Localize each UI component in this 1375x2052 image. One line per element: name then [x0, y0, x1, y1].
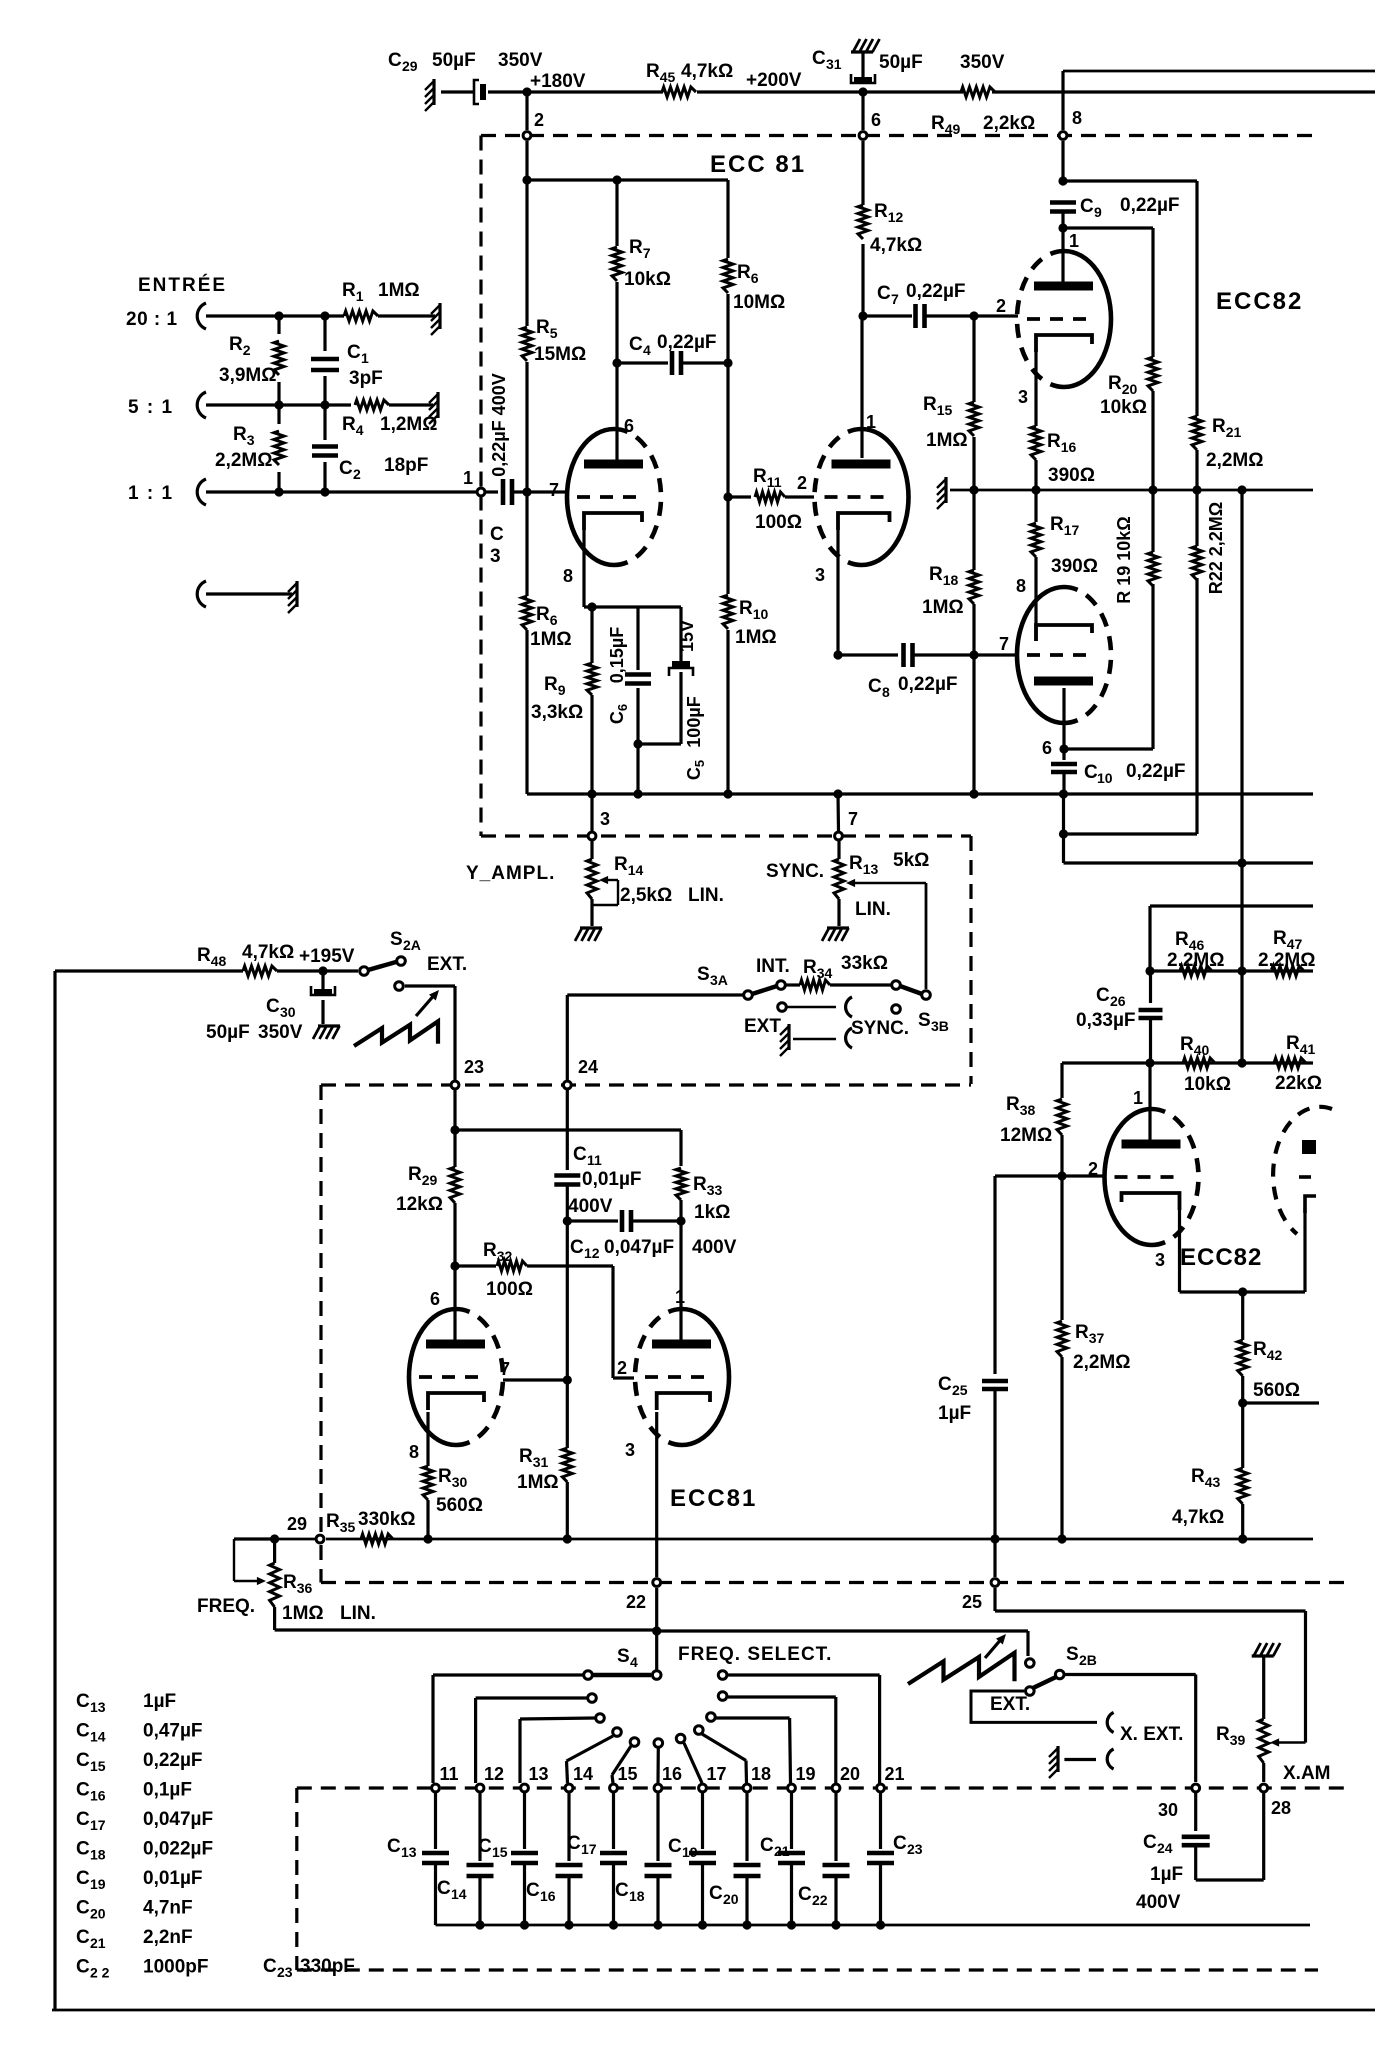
svg-text:C: C — [490, 524, 504, 545]
sawtooth icon 2 — [908, 1653, 1015, 1684]
svg-text:50µF: 50µF — [206, 1022, 250, 1043]
svg-text:1: 1 — [1069, 231, 1079, 251]
svg-text:1µF: 1µF — [143, 1691, 176, 1712]
resistor R21 — [1192, 416, 1202, 450]
wire output X right — [1243, 1401, 1319, 1404]
node 17 — [699, 1784, 707, 1792]
node 28 — [1260, 1784, 1268, 1792]
wire EXT loop — [971, 1691, 1097, 1722]
wire node25 to R39 — [993, 1588, 996, 1611]
svg-text:C: C — [1143, 1832, 1157, 1853]
svg-text:1MΩ: 1MΩ — [282, 1603, 324, 1624]
svg-text:31: 31 — [826, 56, 842, 72]
svg-text:17: 17 — [90, 1817, 106, 1833]
svg-text:C: C — [760, 1835, 774, 1856]
ground R13 — [822, 928, 829, 941]
svg-text:7: 7 — [549, 480, 559, 500]
capacitor C18 — [656, 1793, 659, 1861]
svg-text:330pF: 330pF — [300, 1956, 355, 1977]
svg-text:20: 20 — [723, 1891, 739, 1907]
svg-text:0,047µF: 0,047µF — [143, 1809, 213, 1830]
svg-text:100Ω: 100Ω — [486, 1279, 533, 1300]
svg-text:12: 12 — [484, 1764, 504, 1784]
resistor R29 — [450, 1167, 460, 1203]
svg-text:C: C — [76, 1868, 90, 1889]
svg-text:10: 10 — [1097, 770, 1113, 786]
svg-text:+200V: +200V — [746, 70, 802, 91]
junction C4 left — [612, 358, 621, 367]
svg-text:C: C — [812, 48, 826, 69]
wire R1 to termination — [378, 314, 435, 317]
wire +180V supply rail — [441, 90, 474, 93]
S4 contact 21 — [718, 1671, 727, 1680]
svg-text:C: C — [798, 1884, 812, 1905]
wire R36 bottom to S4 line — [275, 1628, 657, 1631]
svg-text:400V: 400V — [1136, 1892, 1181, 1913]
svg-text:16: 16 — [90, 1788, 106, 1804]
resistor R49 — [961, 87, 995, 97]
svg-text:1: 1 — [463, 468, 473, 488]
svg-text:C: C — [437, 1878, 451, 1899]
svg-text:C: C — [1084, 762, 1098, 783]
node 24 — [563, 1081, 571, 1089]
node 22 — [653, 1579, 661, 1587]
resistor R10 — [726, 497, 729, 594]
svg-text:2,2nF: 2,2nF — [143, 1927, 193, 1948]
capacitor C7 — [863, 314, 912, 317]
svg-text:0,01µF: 0,01µF — [143, 1868, 203, 1889]
svg-text:2,2MΩ: 2,2MΩ — [1206, 450, 1263, 471]
svg-text:33kΩ: 33kΩ — [841, 953, 888, 974]
svg-text:1µF: 1µF — [1150, 1864, 1183, 1885]
svg-text:26: 26 — [1110, 993, 1126, 1009]
capacitor C6 — [636, 607, 639, 670]
junction C9 bottom — [1058, 223, 1067, 232]
wire R4 to termination — [389, 403, 433, 406]
S4 contact 20 — [718, 1692, 727, 1701]
svg-text:1: 1 — [361, 350, 369, 366]
wire anode supply line y180 — [527, 178, 728, 181]
svg-text:1MΩ: 1MΩ — [922, 597, 964, 618]
svg-text:4,7nF: 4,7nF — [143, 1898, 193, 1919]
junction C8 node — [969, 650, 978, 659]
svg-text:LIN.: LIN. — [688, 885, 724, 906]
svg-text:ECC82: ECC82 — [1216, 288, 1303, 315]
capacitor C21 — [790, 1793, 793, 1849]
svg-text:22: 22 — [812, 1892, 828, 1908]
sawtooth icon 1 — [354, 1021, 438, 1046]
svg-text:10MΩ: 10MΩ — [733, 292, 785, 313]
svg-text:390Ω: 390Ω — [1051, 556, 1098, 577]
svg-text:11: 11 — [587, 1152, 602, 1168]
svg-text:C: C — [76, 1750, 90, 1771]
wire supply entry y906 — [1150, 904, 1313, 907]
svg-text:3: 3 — [600, 809, 610, 829]
termination R4 — [436, 392, 439, 418]
svg-text:22kΩ: 22kΩ — [1275, 1073, 1322, 1094]
svg-text:4: 4 — [630, 1654, 638, 1670]
resistor R1 — [344, 311, 378, 321]
svg-text:4,7kΩ: 4,7kΩ — [681, 61, 733, 82]
svg-text:EXT.: EXT. — [990, 1694, 1030, 1715]
svg-text:11: 11 — [440, 1764, 459, 1784]
resistor R30 — [423, 1466, 433, 1500]
svg-text:1MΩ: 1MΩ — [378, 280, 420, 301]
S4 contact 13 — [596, 1714, 605, 1723]
wire node23 down — [453, 1090, 456, 1167]
triode V2a ECC82 — [1064, 251, 1111, 387]
svg-text:18: 18 — [751, 1764, 771, 1784]
svg-text:9: 9 — [1094, 204, 1102, 220]
wire top right corner to node 8 — [1063, 70, 1375, 73]
svg-text:25: 25 — [962, 1592, 982, 1612]
dashed border lower box left — [319, 1085, 322, 1534]
svg-text:0,22µF: 0,22µF — [1120, 195, 1180, 216]
resistor R9 — [590, 607, 593, 663]
junction C12 left — [563, 1216, 572, 1225]
svg-text:18pF: 18pF — [384, 455, 428, 476]
wire S3A to node 24 — [567, 993, 743, 996]
wire osc top link y1130 — [455, 1128, 681, 1131]
capacitor C3 — [486, 490, 498, 493]
wire rail y1539 — [234, 1537, 275, 1540]
svg-text:4,7kΩ: 4,7kΩ — [242, 942, 294, 963]
svg-text:1µF: 1µF — [938, 1403, 971, 1424]
wire R40 row — [1062, 1061, 1313, 1064]
svg-text:C: C — [263, 1956, 277, 1977]
svg-text:13: 13 — [401, 1844, 417, 1860]
potentiometer R36 — [273, 1539, 276, 1563]
svg-text:21: 21 — [885, 1764, 905, 1784]
resistor R41 — [1274, 1058, 1306, 1068]
resistor R37 — [1060, 1176, 1063, 1320]
svg-text:C: C — [347, 342, 361, 363]
wire tube4 anode down — [1062, 688, 1065, 760]
junction C30 — [318, 966, 327, 975]
svg-text:24: 24 — [1157, 1840, 1173, 1856]
resistor R5 — [525, 180, 528, 326]
node 14 — [565, 1784, 573, 1792]
svg-text:15MΩ: 15MΩ — [534, 344, 586, 365]
svg-text:10kΩ: 10kΩ — [1184, 1074, 1231, 1095]
svg-text:3: 3 — [1155, 1250, 1165, 1270]
ground C30 — [313, 1026, 320, 1039]
svg-text:1MΩ: 1MΩ — [926, 430, 968, 451]
capacitor C15 — [523, 1793, 526, 1849]
svg-text:0,33µF: 0,33µF — [1076, 1010, 1136, 1031]
svg-text:20: 20 — [840, 1764, 860, 1784]
node 20 — [832, 1784, 840, 1792]
svg-text:560Ω: 560Ω — [436, 1495, 483, 1516]
svg-text:7: 7 — [848, 809, 858, 829]
triode V3b ECC81 — [682, 1309, 729, 1445]
svg-text:C: C — [893, 1833, 907, 1854]
S4 contact 17 — [676, 1734, 685, 1743]
capacitor C10 — [1051, 762, 1077, 767]
svg-text:7: 7 — [500, 1359, 510, 1379]
S4 contact 14 — [613, 1728, 622, 1737]
svg-text:2 2: 2 2 — [90, 1965, 110, 1981]
S4 contact 15 — [630, 1738, 639, 1747]
node 15 — [610, 1784, 618, 1792]
svg-text:R 19 10kΩ: R 19 10kΩ — [1114, 516, 1134, 604]
wire R32 to tube4 grid — [611, 1266, 614, 1378]
svg-text:S: S — [697, 964, 710, 985]
resistor R16 — [1031, 426, 1041, 460]
svg-text:0,22µF 400V: 0,22µF 400V — [489, 373, 509, 476]
triode V1a ECC81 — [567, 429, 614, 565]
triode V4a ECC82 X — [1105, 1109, 1152, 1245]
svg-text:0,01µF: 0,01µF — [582, 1169, 642, 1190]
triode V1b ECC81 — [862, 429, 909, 565]
node 7 — [835, 832, 843, 840]
svg-text:C: C — [567, 1833, 581, 1854]
svg-text:1MΩ: 1MΩ — [735, 627, 777, 648]
svg-text:8: 8 — [1016, 576, 1026, 596]
svg-text:17: 17 — [707, 1764, 727, 1784]
resistor R8 (labelled R6 in scan) — [726, 180, 729, 258]
node 29 — [316, 1535, 324, 1543]
svg-text:X.AM: X.AM — [1283, 1763, 1331, 1784]
wire mid rail y490 — [950, 489, 1313, 492]
svg-text:2,2MΩ: 2,2MΩ — [1167, 950, 1224, 971]
svg-text:15: 15 — [90, 1758, 106, 1774]
svg-text:4: 4 — [643, 342, 651, 358]
svg-text:1,2MΩ: 1,2MΩ — [380, 414, 437, 435]
termination mid rail — [944, 477, 947, 503]
S4 contact 19 — [707, 1713, 716, 1722]
svg-text:LIN.: LIN. — [855, 899, 891, 920]
resistor R35 — [361, 1534, 393, 1544]
junction grid node — [522, 487, 531, 496]
svg-text:19: 19 — [90, 1876, 106, 1892]
svg-text:1: 1 — [1133, 1088, 1143, 1108]
svg-text:+180V: +180V — [530, 71, 586, 92]
svg-text:1 : 1: 1 : 1 — [128, 483, 174, 504]
svg-text:C: C — [388, 50, 402, 71]
svg-text:3,3kΩ: 3,3kΩ — [531, 702, 583, 723]
svg-text:330kΩ: 330kΩ — [358, 1509, 416, 1530]
junction — [274, 400, 283, 409]
svg-text:350V: 350V — [960, 52, 1005, 73]
svg-text:0,22µF: 0,22µF — [906, 281, 966, 302]
triode V3a ECC81 — [409, 1309, 456, 1445]
svg-text:2,2MΩ: 2,2MΩ — [215, 450, 272, 471]
resistor R11 — [728, 495, 751, 498]
svg-text:4,7kΩ: 4,7kΩ — [870, 235, 922, 256]
termination input ground — [295, 581, 298, 607]
svg-text:0,15µF: 0,15µF — [607, 627, 627, 683]
svg-text:1000pF: 1000pF — [143, 1957, 208, 1978]
svg-text:C: C — [668, 1836, 682, 1857]
resistor R31 — [566, 1380, 569, 1448]
resistor R46 — [1180, 966, 1212, 976]
resistor R12 — [861, 141, 864, 205]
termination R1 — [438, 303, 441, 329]
capacitor C13 — [434, 1793, 437, 1849]
svg-text:18: 18 — [629, 1888, 645, 1904]
resistor R7 — [615, 180, 618, 246]
svg-text:C: C — [478, 1836, 492, 1857]
node 1 — [477, 488, 485, 496]
capacitor C4 — [617, 361, 668, 364]
resistor R39 — [1254, 1643, 1261, 1656]
node 2 — [525, 92, 528, 130]
svg-text:C: C — [615, 1880, 629, 1901]
svg-text:2: 2 — [617, 1358, 627, 1378]
wire tube1 cathode — [582, 529, 585, 607]
junction R32 left — [450, 1261, 459, 1270]
S4 contact 16 — [654, 1739, 663, 1748]
dashed border sync box right — [969, 836, 972, 1084]
svg-text:ECC82: ECC82 — [1180, 1244, 1262, 1271]
svg-text:24: 24 — [578, 1057, 598, 1077]
svg-text:2,2MΩ: 2,2MΩ — [1073, 1352, 1130, 1373]
connector X EXT 1 — [1107, 1712, 1113, 1732]
wire R7 to tube anode — [615, 363, 618, 460]
svg-text:LIN.: LIN. — [340, 1603, 376, 1624]
svg-text:15V: 15V — [677, 620, 697, 652]
resistor R3 — [277, 405, 280, 424]
svg-text:14: 14 — [573, 1764, 593, 1784]
wire tube3 grid to C12 node — [503, 1378, 567, 1381]
triode V4b ECC82 cut — [1273, 1107, 1332, 1234]
svg-text:12: 12 — [584, 1245, 600, 1261]
svg-text:7: 7 — [891, 291, 899, 307]
svg-text:3A: 3A — [710, 972, 728, 988]
svg-text:C: C — [1096, 985, 1110, 1006]
wire tube3 anode — [453, 1266, 456, 1344]
resistor R2 — [277, 316, 280, 334]
svg-text:3: 3 — [1018, 387, 1028, 407]
svg-text:22: 22 — [626, 1592, 646, 1612]
svg-text:50µF: 50µF — [432, 50, 476, 71]
junction — [274, 487, 283, 496]
wire node22 to S4 — [655, 1588, 658, 1631]
resistor R17 — [1034, 490, 1037, 522]
wire R22 bottom link — [1064, 832, 1198, 835]
svg-text:2B: 2B — [1079, 1652, 1097, 1668]
wire left rail down — [53, 971, 56, 2010]
svg-text:2,2MΩ: 2,2MΩ — [1258, 950, 1315, 971]
svg-text:C: C — [629, 334, 643, 355]
potentiometer R13 — [837, 841, 840, 859]
node 18 — [743, 1784, 751, 1792]
svg-text:29: 29 — [402, 58, 418, 74]
svg-text:R22 2,2MΩ: R22 2,2MΩ — [1206, 502, 1226, 594]
node 12 — [476, 1784, 484, 1792]
node 16 — [654, 1784, 662, 1792]
capacitor C2 — [323, 405, 326, 440]
wire pin6 node down — [1062, 794, 1065, 863]
capacitor C20 — [745, 1793, 748, 1861]
switch S3B — [892, 981, 901, 990]
svg-text:C: C — [877, 283, 891, 304]
svg-text:19: 19 — [796, 1764, 816, 1784]
svg-text:6: 6 — [430, 1289, 440, 1309]
svg-text:25: 25 — [952, 1382, 968, 1398]
switch S4 wiper — [655, 1633, 658, 1670]
resistor R15 — [972, 316, 975, 402]
resistor R43 — [1238, 1468, 1248, 1504]
capacitor C22 — [834, 1793, 837, 1861]
svg-text:0,022µF: 0,022µF — [143, 1839, 213, 1860]
wire tube5 anode — [1148, 1063, 1151, 1144]
junction R15 top — [969, 311, 978, 320]
svg-text:20 : 1: 20 : 1 — [126, 309, 178, 330]
resistor R18 — [972, 490, 975, 570]
svg-text:SYNC.: SYNC. — [851, 1018, 909, 1039]
svg-text:1: 1 — [866, 412, 876, 432]
wire C9 to R20 — [1063, 226, 1153, 229]
svg-text:8: 8 — [409, 1442, 419, 1462]
svg-text:INT.: INT. — [756, 956, 790, 977]
svg-text:6: 6 — [624, 416, 634, 436]
svg-text:C: C — [1080, 196, 1094, 217]
svg-text:C: C — [339, 458, 353, 479]
node 30 — [1192, 1784, 1200, 1792]
capacitor C29 — [432, 79, 435, 105]
svg-text:1MΩ: 1MΩ — [517, 1472, 559, 1493]
node 19 — [788, 1784, 796, 1792]
capacitor C26 — [1149, 971, 1152, 1003]
svg-text:20: 20 — [90, 1906, 106, 1922]
resistor R45 — [662, 87, 696, 97]
wire tube2 cathode — [836, 529, 839, 655]
arrow sawtooth 2 — [985, 1637, 1003, 1658]
dashed border capbank left — [295, 1788, 298, 1970]
svg-text:2: 2 — [996, 296, 1006, 316]
svg-text:17: 17 — [581, 1841, 597, 1857]
svg-text:EXT.: EXT. — [427, 954, 467, 975]
svg-text:EXT: EXT — [744, 1016, 781, 1037]
svg-text:S: S — [617, 1646, 630, 1667]
svg-text:ENTRÉE: ENTRÉE — [138, 274, 227, 296]
svg-text:3: 3 — [490, 546, 501, 567]
svg-text:13: 13 — [90, 1699, 106, 1715]
svg-text:18: 18 — [90, 1847, 106, 1863]
svg-text:30: 30 — [1158, 1800, 1178, 1820]
svg-text:C: C — [76, 1898, 90, 1919]
resistor R38 — [1060, 1063, 1063, 1098]
svg-text:28: 28 — [1271, 1798, 1291, 1818]
svg-text:Y_AMPL.: Y_AMPL. — [466, 863, 555, 884]
svg-text:3pF: 3pF — [349, 368, 383, 389]
svg-text:X. EXT.: X. EXT. — [1120, 1724, 1183, 1745]
capacitor C23 — [879, 1793, 882, 1849]
wire 5:1 row — [206, 403, 351, 406]
svg-text:8: 8 — [882, 684, 890, 700]
capacitor C5 electrolytic — [638, 605, 681, 608]
svg-text:5kΩ: 5kΩ — [893, 850, 929, 871]
svg-text:10kΩ: 10kΩ — [624, 269, 671, 290]
svg-text:C: C — [868, 676, 882, 697]
svg-text:+195V: +195V — [299, 946, 355, 967]
svg-text:1MΩ: 1MΩ — [530, 629, 572, 650]
dashed border capbank bottom — [297, 1968, 1318, 1971]
svg-text:8: 8 — [1072, 108, 1082, 128]
svg-text:2: 2 — [1088, 1159, 1098, 1179]
resistor R42 — [1238, 1340, 1248, 1376]
wire capacitor bus — [436, 1924, 1311, 1927]
svg-text:C: C — [570, 1237, 584, 1258]
wire C8 to tube4 grid — [974, 653, 1017, 656]
svg-text:2: 2 — [353, 466, 361, 482]
wire grid return rail — [527, 792, 1313, 795]
svg-text:10kΩ: 10kΩ — [1100, 397, 1147, 418]
wire tube4 anode — [679, 1310, 682, 1344]
node 6 — [859, 132, 867, 140]
